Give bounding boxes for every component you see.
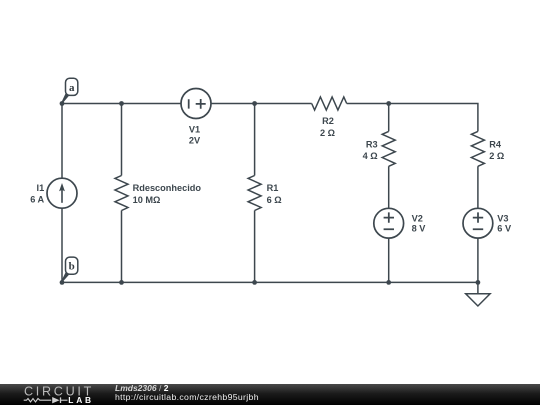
- svg-text:I1: I1: [37, 183, 45, 193]
- wire bottom: [62, 281, 478, 283]
- svg-text:4 Ω: 4 Ω: [363, 151, 378, 161]
- junction bottom of V2: [386, 280, 391, 285]
- resistor R3: [382, 131, 395, 166]
- svg-text:R4: R4: [489, 139, 502, 149]
- node a bubble: [62, 78, 78, 103]
- svg-text:2V: 2V: [189, 136, 201, 146]
- svg-text:2 Ω: 2 Ω: [320, 128, 335, 138]
- footer url text: [115, 393, 259, 403]
- junction top of R3: [386, 101, 391, 106]
- wire R2 to top-right corner, down to R4: [347, 104, 478, 132]
- svg-text:6 A: 6 A: [30, 195, 44, 205]
- voltage source V2: [374, 208, 404, 238]
- footer bar: [0, 384, 540, 405]
- wire left branch upper: [61, 104, 63, 179]
- wire R3 branch: [388, 104, 390, 283]
- wire top-left to V1: [62, 103, 181, 105]
- wire left branch lower: [61, 208, 63, 282]
- svg-text:6 V: 6 V: [497, 224, 512, 234]
- node b bubble: [61, 257, 77, 282]
- svg-text:V2: V2: [412, 213, 423, 223]
- wire V1 to R2: [211, 103, 312, 105]
- svg-text:8 V: 8 V: [412, 224, 427, 234]
- svg-text:V3: V3: [497, 213, 508, 223]
- svg-text:10 MΩ: 10 MΩ: [133, 195, 161, 205]
- CircuitLab logo: [0, 384, 100, 405]
- svg-text:b: b: [69, 261, 75, 273]
- junction bottom of R1: [252, 280, 257, 285]
- junction bottom of V3 / ground: [476, 280, 481, 285]
- svg-text:R2: R2: [322, 116, 334, 126]
- svg-text:LAB: LAB: [68, 395, 94, 405]
- resistor Rdesconhecido: [115, 176, 128, 211]
- footer title text: [115, 384, 168, 394]
- svg-text:2 Ω: 2 Ω: [489, 151, 504, 161]
- svg-text:Rdesconhecido: Rdesconhecido: [133, 183, 202, 193]
- resistor R4: [471, 131, 484, 166]
- wire R4 branch: [477, 166, 479, 282]
- junction node a (top-left): [60, 101, 65, 106]
- junction top of Rdesconhecido: [119, 101, 124, 106]
- svg-text:a: a: [69, 82, 75, 94]
- junction node b (bottom-left): [60, 280, 65, 285]
- voltage source V3: [463, 208, 493, 238]
- wire Rdesconhecido branch: [121, 104, 123, 283]
- junction bottom of Rdesconhecido: [119, 280, 124, 285]
- ground: [466, 282, 490, 306]
- svg-text:R3: R3: [366, 139, 378, 149]
- svg-text:R1: R1: [267, 183, 279, 193]
- voltage source V1: [181, 89, 211, 119]
- svg-text:6 Ω: 6 Ω: [267, 195, 282, 205]
- junction top of R1: [252, 101, 257, 106]
- svg-text:V1: V1: [189, 124, 200, 134]
- resistor R2: [312, 97, 347, 110]
- resistor R1: [248, 176, 261, 211]
- current source I1: [47, 178, 77, 208]
- wire R1 branch: [254, 104, 256, 283]
